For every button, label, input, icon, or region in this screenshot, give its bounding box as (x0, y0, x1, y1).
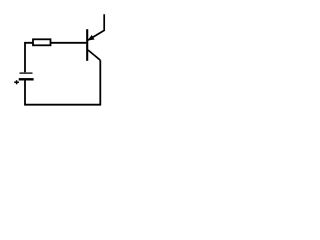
wire: resistor left lead to battery top terminal (25, 43, 33, 73)
battery V1 (14, 73, 33, 84)
battery V1 plus polarity mark (14, 81, 19, 83)
resistor R1 (IEC box body) (33, 39, 51, 45)
wire: battery bottom terminal, bottom return, up to transistor collector (25, 60, 100, 104)
transistor Q1 (PNP) (87, 14, 104, 61)
transistor Q1 emitter lead (up to open terminal) (88, 14, 104, 40)
transistor Q1 emitter arrow (points into base, PNP) (89, 36, 94, 40)
battery V1 bottom (positive) plate (19, 78, 34, 80)
transistor Q1 base bar (86, 29, 88, 61)
battery V1 top (negative) plate (20, 72, 33, 74)
transistor Q1 collector lead (88, 50, 100, 60)
wire: resistor right lead to transistor base (51, 42, 87, 44)
